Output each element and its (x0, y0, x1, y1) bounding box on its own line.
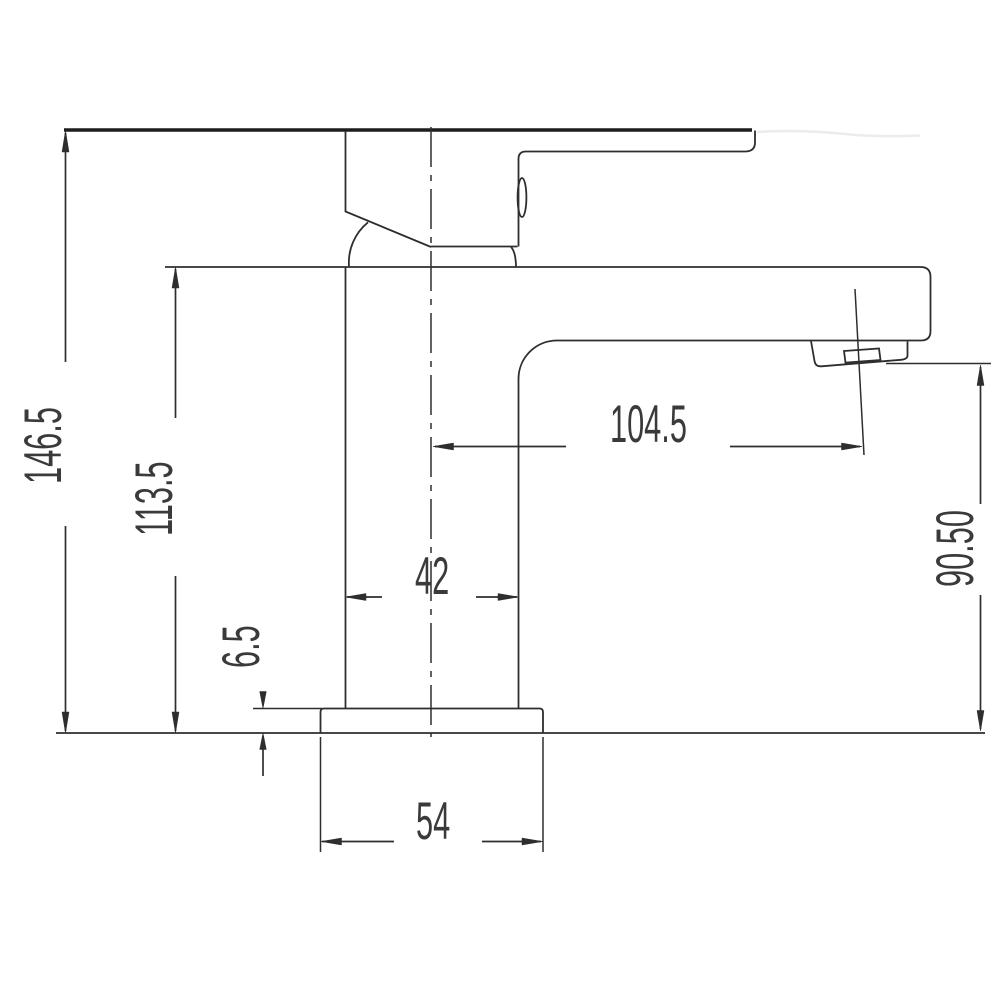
base flange (321, 709, 544, 734)
dim 54 left arrow (321, 838, 342, 845)
body left edge (345, 267, 347, 709)
dim 90.50 bottom arrow (977, 711, 984, 732)
centerline (dash-dot) (430, 127, 432, 737)
dim 54 right arrow (522, 838, 543, 845)
dim 146.5 line (65, 133, 67, 731)
cartridge housing left edge and chamfer diagonal (346, 131, 432, 247)
handle button ellipse (518, 178, 527, 217)
dim 104.5 left arrow (433, 443, 454, 450)
aerator housing (811, 341, 908, 366)
dim 113.5 bottom arrow (172, 712, 179, 733)
svg-text:42: 42 (415, 548, 449, 607)
spout body outline (165, 267, 931, 709)
dim 104.5 right arrow (842, 443, 863, 450)
handle lever top (thick line, also 146.5 extension) (64, 128, 752, 132)
dim 146.5 top arrow (62, 131, 69, 153)
slanted extension line through aerator (855, 289, 864, 455)
dim 90.50 line (980, 367, 982, 729)
svg-text:113.5: 113.5 (126, 461, 185, 536)
dim 54 line (322, 841, 541, 843)
dim 6.5 bottom tail (262, 749, 264, 776)
dim 42 left arrow (346, 594, 367, 601)
dim 90.50 top arrow (977, 365, 984, 386)
jpeg ghost smudge right of handle (757, 131, 920, 136)
dim 113.5 line (175, 269, 177, 731)
dim 6.5 extension line (253, 708, 322, 710)
dim 104.5 line (435, 446, 860, 448)
dim 42 line (347, 596, 517, 598)
svg-text:104.5: 104.5 (610, 396, 687, 455)
svg-text:6.5: 6.5 (213, 625, 272, 668)
handle lever outline (519, 131, 756, 247)
svg-text:146.5: 146.5 (15, 407, 74, 484)
dim 42 right arrow (498, 594, 519, 601)
dim 146.5 bottom arrow (62, 712, 69, 733)
dim 113.5 top arrow (172, 267, 179, 288)
svg-text:54: 54 (416, 793, 450, 852)
collar right fillet arc (511, 247, 516, 267)
neck left fillet arc (349, 222, 368, 266)
cartridge collar bottom line (431, 246, 518, 248)
aerator bottom extension line (886, 363, 991, 365)
dim 6.5 bottom arrow (pointing up) (260, 733, 267, 750)
mounting surface line (56, 732, 985, 734)
dim 6.5 top arrow (pointing down) (260, 692, 267, 709)
svg-text:90.50: 90.50 (927, 510, 986, 587)
aerator outlet rectangle (844, 349, 881, 363)
dim 54 extension lines (321, 737, 544, 852)
